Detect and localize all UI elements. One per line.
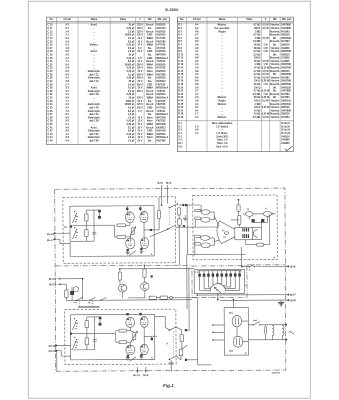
svg-text:C 31: C 31 (48, 94, 54, 96)
rotary switch S1 wafer 2 (74, 227, 75, 228)
svg-text:Te: Te (249, 269, 251, 271)
svg-text:Bosch: Bosch (146, 127, 154, 129)
svg-text:244/806: 244/806 (281, 139, 290, 142)
svg-text:Vitrohm: Vitrohm (270, 109, 279, 112)
wire from T4 out (150, 229, 170, 237)
svg-text:0,5 W: 0,5 W (262, 100, 269, 102)
svg-text:1,0 µF: 1,0 µF (128, 141, 135, 143)
svg-text:WIMA: WIMA (147, 87, 154, 90)
svg-text:2,2 kΩ: 2,2 kΩ (253, 51, 260, 53)
ground (278, 301, 284, 303)
transistor T5 (ellipse) (201, 210, 210, 215)
svg-text:0,1 µF: 0,1 µF (128, 88, 135, 90)
svg-text:Elektro.: Elektro. (90, 44, 99, 47)
svg-text:C 10: C 10 (48, 25, 54, 27)
svg-text:47 kΩ: 47 kΩ (254, 76, 261, 79)
svg-text:Rosenth.: Rosenth. (270, 40, 280, 43)
svg-text:206/5768: 206/5768 (281, 51, 291, 53)
terminal (139, 207, 141, 209)
wire (210, 211, 214, 213)
svg-text:0,25 W: 0,25 W (262, 81, 270, 83)
svg-text:St 3a 29: St 3a 29 (281, 129, 291, 132)
wire (261, 220, 263, 227)
svg-text:„: „ (93, 64, 94, 66)
terminal (140, 354, 142, 356)
transistor T12 (119, 284, 127, 292)
svg-text:„: „ (222, 51, 223, 53)
svg-text:244/7980: 244/7980 (281, 90, 291, 93)
svg-text:C 11: C 11 (48, 28, 53, 30)
wire (65, 297, 67, 300)
svg-text:10000 pF: 10000 pF (125, 104, 136, 106)
svg-text:B+17: B+17 (47, 238, 54, 242)
svg-text:L.P. Switch: L.P. Switch (216, 125, 229, 128)
svg-text:250 V: 250 V (137, 64, 144, 66)
wire B+7 (197, 294, 287, 296)
wire B+5 (254, 265, 287, 267)
svg-text:Drl.: Drl. (273, 54, 277, 56)
wire T2-T4 (143, 222, 145, 237)
svg-text:HS/5016: HS/5016 (156, 31, 166, 33)
svg-text:Mfr. part: Mfr. part (158, 18, 168, 21)
svg-text:C 33: C 33 (48, 101, 54, 103)
svg-text:4,7 kΩ: 4,7 kΩ (253, 24, 260, 27)
wire (56, 344, 70, 346)
svg-text:68 kΩ: 68 kΩ (254, 48, 261, 50)
svg-text:25 µF: 25 µF (129, 98, 136, 100)
wire T14-R45 (129, 327, 131, 330)
svg-text:2,0 µF: 2,0 µF (128, 51, 135, 53)
svg-text:B+9: B+9 (143, 373, 149, 377)
switch contact S4.1 (77, 297, 82, 300)
svg-text:„: „ (93, 54, 94, 56)
wire (248, 216, 250, 219)
svg-text:„: „ (222, 41, 223, 43)
switch contact (170, 327, 177, 330)
svg-text:Widerst.: Widerst. (218, 96, 228, 99)
svg-text:25 V: 25 V (138, 51, 143, 53)
wire top rail (86, 209, 99, 211)
tuning fork horn (217, 221, 235, 244)
svg-text:8,0 µF: 8,0 µF (128, 41, 135, 43)
wire (85, 221, 87, 230)
junction (185, 359, 187, 361)
junction (185, 329, 187, 331)
rotary switch S1 wafer 1 (74, 211, 75, 212)
junction (285, 339, 287, 341)
wire (187, 329, 189, 331)
svg-text:St 3a 21: St 3a 21 (281, 122, 291, 125)
svg-text:KT/7016: KT/7016 (156, 107, 166, 109)
svg-text:211/806: 211/806 (281, 61, 290, 63)
preamp unit b2 (solid box) (70, 314, 154, 360)
svg-text:R 26: R 26 (178, 107, 184, 109)
svg-text:B+13: B+13 (49, 349, 56, 353)
svg-text:70 V: 70 V (138, 71, 143, 73)
svg-text:DK/5012: DK/5012 (156, 81, 166, 83)
ground T4 (139, 250, 143, 252)
svg-text:„: „ (222, 61, 223, 63)
svg-text:HS/5016: HS/5016 (156, 64, 166, 66)
svg-text:„: „ (222, 54, 223, 56)
svg-text:B+14: B+14 (133, 373, 140, 377)
wire stub (136, 367, 138, 373)
svg-text:„: „ (93, 58, 94, 60)
svg-text:Vitrohm: Vitrohm (270, 76, 279, 79)
svg-text:Bosch: Bosch (146, 104, 154, 106)
wire emitter T4 (140, 249, 142, 252)
svg-text:244/7980: 244/7980 (281, 27, 291, 30)
svg-text:R 22: R 22 (178, 94, 184, 96)
svg-text:2,2 kΩ: 2,2 kΩ (253, 74, 260, 76)
ground (170, 360, 172, 362)
wire bottom rail (71, 349, 94, 351)
svg-text:„: „ (222, 38, 223, 40)
svg-text:„: „ (222, 48, 223, 50)
svg-text:25 V: 25 V (138, 141, 143, 143)
svg-text:B+11: B+11 (49, 282, 56, 286)
svg-text:Rosenth.: Rosenth. (270, 93, 280, 96)
svg-text:330 Ω: 330 Ω (254, 58, 261, 60)
svg-text:Rosenth.: Rosenth. (270, 113, 280, 116)
svg-text:Regler: Regler (218, 31, 225, 33)
svg-text:C 13: C 13 (48, 35, 54, 37)
svg-text:0,25 W: 0,25 W (262, 97, 270, 99)
svg-text:HS/5010: HS/5010 (156, 94, 166, 96)
resistor R42 (85, 338, 89, 345)
resistor R22 (118, 272, 121, 280)
svg-text:12 V: 12 V (138, 41, 143, 43)
svg-text:206/5768: 206/5768 (281, 84, 291, 86)
svg-text:R 29: R 29 (178, 117, 184, 119)
svg-text:Elektrolytk.: Elektrolytk. (88, 70, 101, 73)
svg-text:C 41: C 41 (48, 126, 54, 129)
wire R45-T16 (129, 342, 131, 345)
svg-text:Sie.: Sie. (148, 114, 152, 116)
svg-text:206/5768: 206/5768 (281, 74, 291, 76)
wire (158, 197, 160, 210)
svg-text:C 20: C 20 (48, 58, 54, 60)
wire (156, 297, 160, 299)
svg-text:WIMA: WIMA (147, 37, 154, 40)
svg-text:Sie.: Sie. (148, 48, 152, 50)
svg-text:PK/7580: PK/7580 (156, 41, 166, 43)
svg-text:St 3a 25: St 3a 25 (281, 125, 291, 128)
junction (196, 294, 198, 296)
svg-text:ERO: ERO (147, 35, 152, 37)
left parts table (47, 17, 170, 144)
svg-text:56 kΩ: 56 kΩ (254, 44, 261, 46)
svg-text:68 kΩ: 68 kΩ (254, 97, 261, 99)
svg-text:14.1: 14.1 (73, 301, 77, 304)
transistor T13 (141, 282, 149, 290)
capacitor C41 (93, 338, 97, 340)
svg-text:1,5 MΩ: 1,5 MΩ (253, 41, 261, 43)
svg-text:R 20: R 20 (178, 87, 184, 89)
wire (194, 220, 196, 227)
svg-text:Kond.: Kond. (91, 127, 98, 129)
wire (151, 336, 153, 339)
svg-text:0,5 W: 0,5 W (262, 71, 269, 73)
coupling link (79, 301, 81, 306)
svg-text:Name: Name (91, 18, 98, 21)
capacitor C11 (solid) (98, 210, 101, 213)
wire (237, 200, 239, 205)
wire (236, 327, 238, 336)
svg-text:244/7980: 244/7980 (281, 109, 291, 112)
svg-text:C 44: C 44 (48, 136, 54, 139)
svg-text:C 45: C 45 (48, 140, 54, 143)
svg-text:4,7 kΩ: 4,7 kΩ (253, 90, 260, 93)
svg-text:C 43: C 43 (48, 133, 54, 136)
switch common contact (70, 225, 72, 227)
svg-text:Pot. geschalt.: Pot. geschalt. (215, 27, 230, 30)
svg-text:Value: Value (246, 18, 253, 21)
svg-text:70 V: 70 V (138, 134, 143, 136)
terminal B+5 (287, 265, 289, 267)
svg-text:0,5 µF: 0,5 µF (128, 107, 135, 109)
svg-text:6 V: 6 V (138, 58, 142, 60)
svg-text:Vitrohm: Vitrohm (270, 27, 279, 30)
svg-text:Gs: Gs (216, 289, 218, 291)
feedback arrow (129, 357, 136, 361)
tube 63 (140, 211, 148, 222)
svg-text:C 34: C 34 (48, 103, 54, 106)
junction (119, 268, 121, 270)
tube Ro2 (233, 336, 243, 347)
svg-text:Rosenth.: Rosenth. (270, 57, 280, 60)
junction (241, 266, 243, 268)
svg-text:25 V: 25 V (138, 127, 143, 129)
wire T15-T17 (143, 327, 145, 344)
svg-text:R 11: R 11 (178, 58, 183, 60)
wire (56, 351, 58, 372)
svg-text:206/516: 206/516 (281, 54, 290, 56)
switch Sw1 (253, 322, 260, 325)
svg-text:Bosch: Bosch (146, 25, 154, 27)
svg-text:B+8: B+8 (290, 298, 296, 302)
svg-text:„: „ (222, 107, 223, 109)
junction (144, 265, 146, 267)
switch S2 contact lower (168, 226, 175, 229)
svg-text:Circuit: Circuit (193, 18, 201, 21)
wire T1-R18 (129, 223, 131, 226)
resistor R34 (194, 243, 200, 245)
svg-text:R 24: R 24 (178, 99, 184, 102)
svg-text:C 32: C 32 (48, 98, 54, 100)
wire (172, 297, 197, 299)
magnet C-core (253, 230, 258, 237)
supply rail (120, 267, 194, 269)
svg-text:C 35: C 35 (48, 107, 54, 109)
wire (238, 224, 240, 226)
resistor R23 (143, 269, 146, 278)
svg-text:DK/5012: DK/5012 (156, 127, 166, 129)
wiper arc (210, 284, 225, 292)
strip bus wire (195, 269, 197, 271)
svg-text:MKS/Dur.4: MKS/Dur.4 (156, 136, 168, 139)
svg-text:250 V: 250 V (137, 98, 144, 100)
wire jog (56, 350, 61, 352)
svg-text:WIMA: WIMA (147, 97, 154, 100)
svg-text:84 5563: 84 5563 (281, 116, 290, 119)
coupling link (92, 301, 94, 306)
junction (150, 229, 152, 231)
svg-text:Rosenth.: Rosenth. (270, 70, 280, 73)
svg-text:100 Ω: 100 Ω (254, 100, 261, 102)
resistor R32 (195, 217, 201, 219)
svg-text:HS/5010: HS/5010 (156, 71, 166, 73)
svg-text:„: „ (222, 81, 223, 83)
svg-text:R 21: R 21 (178, 91, 184, 93)
svg-text:abb 7.45: abb 7.45 (89, 106, 99, 109)
resistor R25 (160, 296, 168, 299)
svg-text:Gl 1: Gl 1 (178, 143, 183, 145)
svg-text:„: „ (93, 31, 94, 33)
svg-text:C 39: C 39 (48, 121, 54, 123)
mid chassis divider (55, 264, 192, 267)
wire (187, 253, 245, 255)
svg-text:0,25 W: 0,25 W (262, 114, 270, 116)
svg-text:WIMA: WIMA (147, 44, 154, 47)
input stub 3 (212, 339, 214, 341)
wire (93, 210, 95, 241)
mechanical link (172, 332, 174, 357)
wire (86, 328, 88, 338)
svg-text:5000 pF: 5000 pF (126, 101, 135, 103)
svg-text:206/5768: 206/5768 (281, 64, 291, 66)
svg-text:206/516: 206/516 (281, 35, 290, 37)
svg-text:0,02 µF: 0,02 µF (127, 28, 136, 30)
svg-text:Regler: Regler (218, 100, 225, 102)
svg-text:56 kΩ: 56 kΩ (254, 61, 261, 63)
capacitor C21 (70, 291, 74, 295)
wire (187, 359, 197, 361)
svg-text:125 V: 125 V (137, 68, 144, 70)
svg-text:Trafo (307): Trafo (307) (216, 136, 228, 138)
resistor R41 (85, 321, 89, 328)
svg-text:B+10: B+10 (49, 277, 56, 281)
capacitor C42 (solid) (99, 317, 102, 320)
svg-text:TF/5014: TF/5014 (156, 60, 165, 63)
svg-text:abb 7.40: abb 7.40 (89, 93, 99, 96)
svg-text:TF/5014: TF/5014 (156, 90, 165, 93)
tube 65 (141, 237, 149, 248)
svg-text:Drl.: Drl. (273, 87, 277, 89)
svg-text:Name: Name (219, 18, 226, 21)
wire (127, 341, 131, 343)
svg-text:Elektrolytk.: Elektrolytk. (88, 103, 101, 106)
trimmer R18 (131, 228, 134, 235)
switch contact S4.2 (90, 297, 95, 300)
svg-text:Valvo: Valvo (147, 68, 154, 70)
rotary switch S3 wafer 1 (74, 318, 75, 319)
svg-text:Widerst.: Widerst. (218, 24, 228, 27)
wire supply feed left (160, 185, 162, 205)
switch contact S4.3 (101, 297, 106, 300)
svg-text:C 26: C 26 (48, 78, 54, 80)
mid chassis divider right (247, 264, 285, 266)
svg-text:C 30: C 30 (48, 91, 54, 93)
svg-text:6 V: 6 V (138, 111, 142, 113)
svg-text:12 V: 12 V (138, 121, 143, 123)
svg-text:102: 102 (223, 237, 226, 239)
svg-text:Mfr: Mfr (148, 18, 152, 21)
svg-text:Trans. 2 A: Trans. 2 A (217, 139, 228, 142)
svg-text:R 17: R 17 (178, 77, 184, 79)
svg-text:8,0 µF: 8,0 µF (128, 48, 135, 50)
junction (82, 278, 84, 280)
wire (243, 341, 249, 343)
wire (248, 324, 253, 326)
svg-text:0,02 µF: 0,02 µF (127, 124, 136, 126)
wire (85, 237, 87, 242)
svg-text:8,0 µF: 8,0 µF (128, 131, 135, 133)
housing divider (252, 227, 254, 239)
junction (238, 199, 240, 201)
svg-text:Rosenth.: Rosenth. (270, 30, 280, 33)
wire top rail (87, 316, 100, 318)
svg-text:„: „ (222, 77, 223, 79)
wire trunk d feed (186, 205, 188, 254)
resistor R24 (149, 296, 157, 299)
svg-text:206/5768: 206/5768 (281, 68, 291, 70)
wire trunk (82, 279, 84, 301)
capacitor (solid pair) (182, 204, 184, 206)
svg-text:„: „ (222, 87, 223, 89)
wire switch common (71, 224, 114, 226)
terminal arrow (57, 278, 61, 280)
trimmer arrow (181, 345, 187, 349)
svg-text:KS/7n40: KS/7n40 (156, 27, 166, 30)
svg-text:12 V: 12 V (138, 45, 143, 47)
svg-text:12 V: 12 V (138, 38, 143, 40)
svg-text:C 29: C 29 (48, 88, 54, 90)
svg-text:abb 7.31: abb 7.31 (89, 81, 99, 83)
svg-text:„: „ (222, 44, 223, 46)
svg-text:Drl.: Drl. (273, 91, 277, 93)
svg-text:244/806: 244/806 (281, 142, 290, 145)
svg-text:SL25801: SL25801 (165, 8, 179, 12)
svg-text:8,0 µF: 8,0 µF (128, 111, 135, 113)
wire bus upper (179, 204, 201, 206)
terminal B+8 (287, 299, 289, 301)
svg-text:12 V: 12 V (138, 137, 143, 139)
svg-text:0,5 W: 0,5 W (262, 25, 269, 27)
svg-text:211/806: 211/806 (281, 48, 290, 50)
svg-text:PK/7580: PK/7580 (156, 74, 166, 76)
svg-text:Sie.: Sie. (148, 81, 152, 83)
svg-text:No.: No. (180, 18, 184, 21)
svg-text:C 21: C 21 (48, 61, 54, 63)
svg-text:R 27: R 27 (178, 110, 184, 112)
wire trunk (233, 300, 235, 308)
svg-text:Elektrolytk.: Elektrolytk. (88, 116, 101, 119)
svg-text:ERO: ERO (147, 84, 152, 86)
amplifier block a (dashed box) (63, 197, 176, 264)
resistor R33 (194, 235, 200, 237)
resistor R13 (117, 224, 126, 227)
wire (170, 365, 172, 372)
fork hub (225, 232, 229, 235)
svg-text:C 37: C 37 (48, 114, 54, 116)
svg-text:206/5768: 206/5768 (281, 38, 291, 40)
svg-text:C 24: C 24 (48, 70, 54, 73)
svg-text:MKS/Dur.4: MKS/Dur.4 (156, 113, 168, 116)
svg-text:8,0 µF: 8,0 µF (128, 61, 135, 63)
svg-text:KS/7n40: KS/7n40 (156, 130, 166, 133)
svg-text:25 V: 25 V (138, 88, 143, 90)
